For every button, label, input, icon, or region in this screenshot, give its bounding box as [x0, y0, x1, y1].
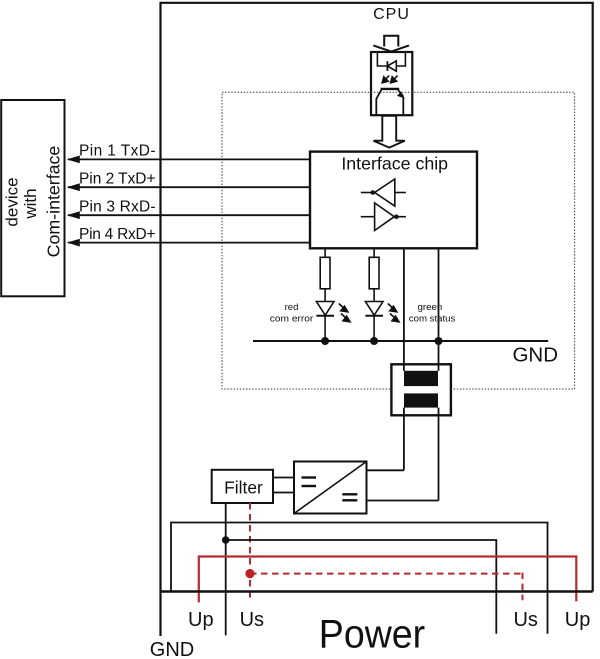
svg-text:com error: com error — [270, 313, 314, 324]
optocoupler phototransistor Q — [376, 89, 404, 115]
svg-text:device: device — [3, 177, 22, 226]
wire transformer to DC/DC (lower) — [367, 500, 439, 502]
LED1 (red com error) — [316, 302, 334, 316]
svg-text:Pin 3 RxD-: Pin 3 RxD- — [79, 198, 156, 215]
svg-text:GND: GND — [150, 639, 194, 659]
svg-text:Pin 2 TxD+: Pin 2 TxD+ — [79, 170, 156, 187]
svg-text:Power: Power — [319, 613, 425, 657]
node dot Us tap (red) — [245, 569, 254, 578]
optocoupler light arrows — [382, 76, 397, 83]
outer box bottom edge — [161, 590, 593, 593]
svg-text:GND: GND — [513, 344, 559, 367]
node dot at buffer A input — [371, 190, 376, 195]
wire filter to DC/DC (upper) — [273, 477, 294, 479]
svg-text:Pin 1 TxD-: Pin 1 TxD- — [79, 143, 156, 160]
svg-text:Us: Us — [240, 609, 264, 631]
LED2 light arrows — [388, 304, 399, 322]
DC/DC converter U3 — [294, 462, 367, 514]
red dashed Us rail — [250, 573, 523, 575]
svg-text:Up: Up — [188, 609, 214, 631]
junction dot LED2/GND — [370, 337, 378, 345]
resistor R1 lead — [324, 248, 326, 257]
transformer T1 — [391, 364, 451, 415]
svg-text:com status: com status — [409, 313, 456, 324]
svg-text:Pin 4 RxD+: Pin 4 RxD+ — [79, 226, 156, 243]
buffer B (driver, points right) — [361, 203, 406, 231]
junction dot chip/GND — [435, 337, 443, 345]
svg-text:Com-interface: Com-interface — [44, 146, 64, 258]
wire filter to power bus (black) — [225, 503, 227, 635]
optocoupler LED wiring — [377, 53, 405, 66]
wire R2 to LED2 — [373, 289, 375, 302]
GND bus — [253, 340, 548, 342]
resistor R2 lead — [373, 248, 375, 257]
svg-text:Filter: Filter — [224, 477, 263, 497]
wire chip to transformer left — [403, 248, 405, 470]
red Up rail — [199, 557, 577, 603]
device with Com-interface box — [1, 100, 64, 296]
resistor R2 — [369, 257, 379, 289]
wire R1 to LED1 — [324, 289, 326, 302]
power rail box — [171, 523, 548, 592]
LED1 light arrows — [339, 304, 350, 322]
wire arrow optocoupler to interface chip (block arrow) — [374, 116, 405, 148]
svg-text:CPU: CPU — [373, 6, 410, 23]
svg-text:Up: Up — [565, 609, 591, 631]
filter box — [212, 470, 273, 503]
power rail box right lead below — [547, 592, 549, 634]
wire chip to transformer right — [438, 248, 440, 500]
wire arrow CPU to optocoupler (block arrow) — [373, 36, 409, 52]
wire Pin3 — [68, 214, 310, 216]
wire Pin4 — [68, 242, 310, 244]
svg-text:Us: Us — [513, 609, 537, 631]
buffer A (receiver, points left) — [361, 179, 406, 206]
svg-text:Interface chip: Interface chip — [341, 154, 448, 174]
wire filter to DC/DC (lower) — [273, 492, 294, 494]
junction dot filter/power bus — [222, 536, 230, 544]
wire filter to Us (red dashed) — [249, 503, 251, 600]
junction dot LED1/GND — [321, 337, 329, 345]
wire Pin2 — [68, 186, 310, 188]
node dot at buffer B output — [394, 214, 399, 219]
isolation boundary (dashed box) — [222, 92, 575, 389]
svg-text:with: with — [21, 188, 40, 219]
resistor R1 — [320, 257, 330, 289]
wire transformer to DC/DC (upper) — [367, 469, 404, 471]
optocoupler LED D (diode) — [386, 61, 388, 71]
outer device box — [161, 3, 593, 636]
LED2 (green com status) — [365, 302, 383, 316]
inner power rail (black) — [226, 540, 497, 634]
svg-text:red: red — [285, 302, 299, 313]
wire Pin1 — [68, 158, 310, 160]
interface chip U2 box — [310, 152, 477, 249]
optocoupler U1 box — [371, 52, 412, 115]
